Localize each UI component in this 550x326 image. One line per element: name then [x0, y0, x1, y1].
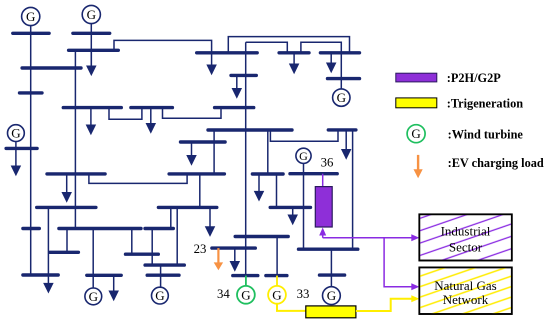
wire bus S2 to bus X	[170, 207, 172, 228]
generator G4 top right	[333, 89, 350, 106]
bus F2	[131, 106, 173, 109]
Natural Gas Network box	[419, 267, 512, 314]
wire G2 drop through bus 2 and bus 3	[90, 23, 92, 68]
svg-text:Sector: Sector	[449, 240, 483, 255]
wire bus Z2 to bus Z3 to G bottom2	[160, 265, 162, 287]
svg-text::Wind turbine: :Wind turbine	[448, 128, 524, 142]
EV charging load arrow at bus 23 (orange)	[214, 248, 223, 270]
svg-text:G: G	[337, 90, 346, 105]
bus 33	[266, 274, 287, 277]
wire G36 to bus 36 to bus AA to bus BB	[303, 163, 305, 249]
legend EV charging arrow	[414, 155, 423, 178]
wind turbine G 34 (green)	[237, 286, 255, 304]
wire busG corner to bus J	[246, 42, 288, 53]
load arrow at bus 23 (navy)	[234, 248, 236, 263]
svg-text:G: G	[87, 7, 96, 22]
svg-text:Natural Gas: Natural Gas	[434, 278, 496, 293]
trigeneration G 33 (yellow)	[268, 286, 286, 304]
svg-text::Trigeneration: :Trigeneration	[447, 97, 523, 111]
load arrow at bus T2	[113, 275, 115, 292]
wind turbine G3	[8, 125, 25, 142]
svg-text:G: G	[26, 9, 35, 24]
legend Trigeneration swatch	[396, 98, 437, 108]
wire bus X to bus Z2 through bus W	[151, 229, 153, 266]
wire jumper bus N to bus R	[89, 174, 187, 184]
wind turbine G2	[82, 5, 100, 23]
bus 5 (small)	[20, 91, 43, 94]
load arrow at bus Q	[191, 142, 193, 157]
bus AA	[270, 206, 310, 209]
load arrow at bus O2	[258, 174, 260, 193]
load arrow at bus F	[90, 108, 92, 127]
svg-text::EV charging load: :EV charging load	[448, 156, 544, 170]
load arrow at bus L	[15, 148, 17, 167]
bus 23	[212, 246, 255, 249]
load arrow at bus R2	[345, 130, 347, 151]
generator G bottom2	[152, 287, 169, 304]
load arrow at bus S2	[209, 207, 211, 228]
svg-text:G: G	[327, 288, 336, 303]
bus R	[169, 172, 224, 175]
wire bus P to bus R through bus Q	[213, 130, 215, 174]
load arrow at bus J	[293, 53, 295, 66]
load arrow at bus N	[66, 174, 68, 194]
bus U	[59, 227, 141, 230]
bus Z2	[145, 263, 184, 266]
generator G bottom1	[85, 288, 102, 305]
bus Z3	[147, 274, 179, 277]
svg-text:23: 23	[194, 242, 207, 256]
bus Q	[181, 140, 226, 143]
wire bus S2 to bus Z2	[176, 207, 178, 265]
bus P	[208, 128, 292, 131]
purple feed arrow into P2H bottom	[319, 228, 326, 238]
wire jumper bus F2 to bus M	[163, 108, 222, 119]
svg-text:G: G	[89, 289, 98, 304]
bus 36	[290, 172, 337, 175]
svg-text:34: 34	[217, 287, 230, 301]
svg-text:Network: Network	[443, 292, 489, 307]
bus W	[126, 252, 159, 255]
bus 34	[233, 274, 258, 277]
purple branch to Natural Gas Network	[384, 238, 419, 290]
bus BB	[299, 247, 358, 250]
purple line to Industrial Sector	[323, 234, 420, 241]
bus M	[215, 106, 254, 109]
yellow wire G33 to trigeneration unit	[277, 304, 306, 311]
wire bus U to bus W	[131, 229, 133, 255]
bus 3	[69, 49, 119, 52]
wire bus U to bus T2 to G bottom1	[92, 229, 94, 289]
bus S	[37, 206, 96, 209]
svg-text:G: G	[272, 287, 281, 302]
bus F	[63, 106, 121, 109]
yellow wire bus33 to G	[276, 276, 278, 286]
bus 2 (under G2)	[73, 32, 110, 35]
wire jumper bus P to bus R2	[270, 130, 338, 141]
Industrial Sector box	[419, 214, 512, 260]
yellow line to Natural Gas Network	[356, 295, 419, 311]
wire G1 drop to bus T1	[30, 25, 32, 275]
generator G36	[296, 148, 311, 163]
load arrow at bus F2	[150, 108, 152, 125]
bus G (top middle)	[197, 51, 258, 54]
svg-text:G: G	[299, 149, 308, 163]
wire busG long vertical to bus 34	[245, 42, 247, 275]
bus K	[328, 77, 360, 80]
legend wind turbine symbol	[407, 125, 425, 143]
wire jumper bus F to bus F2	[109, 108, 142, 120]
wire bus3 to bus U	[74, 50, 76, 228]
svg-text:Industrial: Industrial	[441, 224, 491, 239]
svg-text:33: 33	[297, 287, 310, 301]
bus T1	[23, 273, 58, 276]
bus T2	[87, 274, 121, 277]
wire bus R2 to bus BB	[352, 130, 354, 249]
bus V	[50, 251, 79, 254]
wire bus BB to bus CC to G bottom5	[330, 249, 332, 286]
P2H/G2P unit purple rectangle	[315, 174, 332, 227]
bus 4	[22, 66, 81, 69]
legend P2H/G2P swatch	[396, 73, 437, 82]
green wire bus34 to wind G	[245, 276, 247, 286]
bus J	[279, 51, 309, 54]
svg-text:G: G	[155, 288, 164, 303]
load arrow at bus S through bus T1	[47, 207, 49, 284]
wire bus P to bus O2	[267, 130, 269, 174]
wire bus Y to bus 33	[276, 237, 278, 276]
wire bus R to bus S2	[199, 174, 201, 208]
bus S2	[158, 206, 216, 209]
load arrow at bus G	[211, 53, 213, 67]
load arrow at bus H	[236, 75, 238, 89]
svg-text:G: G	[11, 126, 20, 141]
svg-text:36: 36	[321, 156, 334, 170]
bus 1 (top-left, under G1)	[13, 32, 49, 35]
generator G bottom5	[323, 287, 341, 305]
bus Y	[235, 235, 288, 238]
bus L	[6, 147, 37, 150]
wire busJ corner to bus K and G4	[301, 42, 341, 89]
bus I	[320, 51, 359, 54]
wind turbine G1	[22, 7, 40, 25]
bus N	[47, 172, 105, 175]
wire bus3 corner to bus G	[114, 40, 212, 52]
wire bus O2 to bus AA	[276, 174, 278, 207]
wire G3 to bus L	[15, 142, 17, 149]
trigeneration unit yellow rectangle	[306, 306, 356, 318]
bus O2	[252, 172, 283, 175]
wire busG corner to bus I	[228, 37, 349, 53]
svg-text:G: G	[411, 126, 420, 141]
load arrow at bus I	[330, 53, 332, 65]
bus X	[145, 227, 173, 230]
bus T small	[23, 227, 39, 230]
svg-text:G: G	[241, 287, 250, 302]
svg-text::P2H/G2P: :P2H/G2P	[447, 71, 501, 85]
bus R2	[328, 128, 356, 131]
bus CC	[320, 273, 345, 276]
bus H	[231, 74, 256, 77]
load arrow at bus AA	[292, 207, 294, 216]
wire bus U to bus V	[66, 229, 68, 253]
load arrow at bus 3 (from G2 line)	[90, 66, 92, 68]
